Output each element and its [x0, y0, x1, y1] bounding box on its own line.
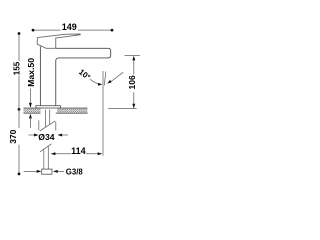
dimension Max.50 upper extension line — [29, 89, 31, 107]
svg-text:114: 114 — [71, 146, 86, 156]
dimension Ø34 right extension line — [55, 122, 57, 131]
dimension 155 dot bottom (shared with 370) — [18, 108, 21, 111]
dimension 106 bottom extension line (countertop level) — [108, 107, 137, 109]
dimension 370 line — [18, 109, 20, 173]
dimension 106 bottom arrow (down) — [132, 104, 135, 109]
break diagonal lower — [40, 144, 52, 152]
countertop bottom line — [24, 112, 88, 114]
dimension 149 end dot left — [32, 29, 35, 32]
dimension 149 line — [33, 29, 112, 31]
countertop surface line — [24, 107, 88, 109]
10 degree tilted stream line — [104, 72, 106, 86]
svg-text:106: 106 — [127, 75, 137, 89]
dimension 106 line — [133, 58, 135, 108]
G3/8 label arrow — [55, 170, 65, 172]
hose lines lower — [44, 146, 49, 169]
svg-text:155: 155 — [12, 61, 21, 75]
dimension 370 bottom dot — [18, 173, 21, 176]
dimension 114 line — [55, 153, 98, 155]
dimension Max.50 lower arrow (up) — [29, 114, 32, 119]
dimension Ø34 right arrow — [62, 134, 68, 136]
dimension 106 top arrow (up) — [132, 56, 135, 61]
dimension 114 left arrow — [51, 152, 56, 155]
svg-text:G3/8: G3/8 — [66, 167, 84, 176]
dimension 114 right arrow — [98, 152, 103, 155]
spout outlet extension line — [102, 71, 104, 156]
shank pipe lines — [46, 110, 50, 128]
break diagonal upper — [40, 121, 56, 131]
base plate — [36, 106, 61, 108]
dimension 149 end dot right — [111, 29, 114, 32]
dimension Ø34 left arrow — [29, 134, 35, 136]
countertop hatch right — [57, 108, 88, 113]
svg-text:149: 149 — [62, 22, 77, 32]
svg-text:370: 370 — [8, 129, 18, 143]
10 degree right leader arrow — [110, 72, 123, 82]
dimension Ø34 left extension line — [38, 120, 40, 130]
dimension 155 dot top — [18, 32, 21, 35]
dimension 106 top extension tick — [125, 55, 140, 57]
dimension 155 line — [18, 34, 20, 110]
countertop hatch left — [24, 108, 41, 113]
svg-text:Ø34: Ø34 — [38, 132, 54, 142]
hose end nut — [42, 169, 52, 174]
arrow pointing at hose end from 370 line — [24, 170, 37, 172]
faucet body column and spout outline — [40, 47, 110, 106]
dimension Max.50 upper arrow (down) — [29, 103, 32, 108]
10 degree leader arrow from text — [90, 79, 101, 84]
faucet handle (knob + lever) — [37, 34, 80, 48]
svg-text:Max.50: Max.50 — [26, 58, 36, 87]
dimension Max.50 lower extension line — [29, 118, 31, 129]
